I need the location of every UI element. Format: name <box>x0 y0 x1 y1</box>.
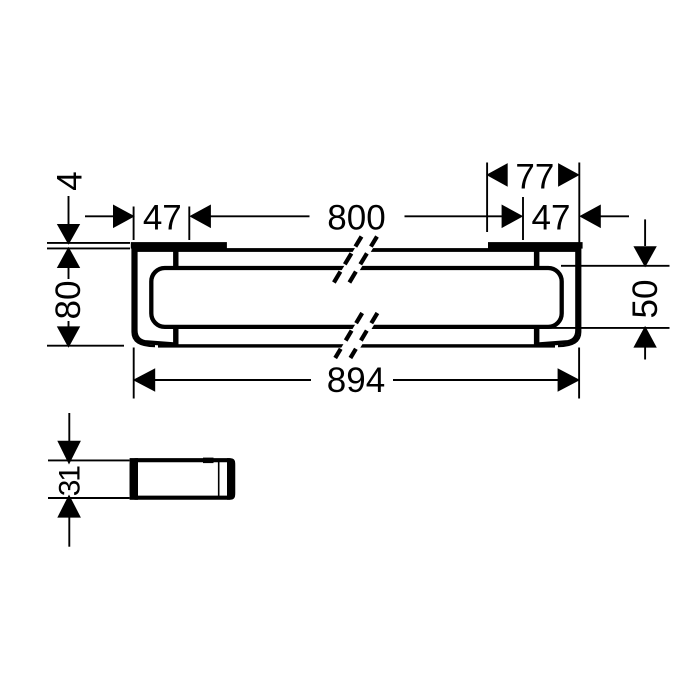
dim 31 extension line bottom <box>48 497 130 499</box>
dim 894 dim line left segment <box>134 379 311 381</box>
dim 77 arrow right <box>558 163 580 187</box>
dim 47 left arrow right <box>113 205 135 229</box>
side profile right end cap <box>227 458 235 500</box>
dim 80 arrow down <box>57 326 80 347</box>
dim 50 leader line top <box>644 219 646 246</box>
right support arm upper segment <box>534 249 540 267</box>
wall plate right (top thick bar) <box>488 242 583 249</box>
svg-text:47: 47 <box>532 198 571 237</box>
dim 31 arrow down <box>57 441 81 465</box>
bar bottom edge line <box>158 344 555 347</box>
dim 77 arrow left <box>486 163 508 187</box>
dim 31 arrow up <box>57 495 81 518</box>
side profile left end cap <box>130 458 138 500</box>
dim 50 arrow up <box>633 326 656 348</box>
dim 50 leader line bottom <box>644 347 646 360</box>
dim 894 arrow right <box>558 368 580 392</box>
right support arm lower segment <box>534 329 540 346</box>
dim 77 extension line left <box>486 163 488 233</box>
dim 894 dim line right segment <box>393 379 579 381</box>
dim 800 arrow right <box>502 205 524 229</box>
svg-text:80: 80 <box>49 281 88 320</box>
dim 894 extension line right <box>578 348 580 399</box>
svg-text:800: 800 <box>327 198 385 237</box>
dim 800 arrow left <box>189 205 211 229</box>
rail opening (inner rounded rectangle) <box>151 268 561 327</box>
dim 47 left extension line b <box>188 207 190 241</box>
dim 31 extension line top <box>48 459 130 461</box>
dim 50 extension line top <box>561 265 670 267</box>
break slash lower 1 <box>335 313 362 358</box>
svg-text:77: 77 <box>515 157 554 196</box>
svg-text:50: 50 <box>626 280 665 319</box>
dim 800 dim line right segment <box>405 215 504 217</box>
dim 894 extension line left <box>133 348 135 399</box>
side profile seam line <box>218 460 220 498</box>
svg-text:47: 47 <box>143 198 182 237</box>
break slash upper 1 <box>334 237 362 283</box>
dim 31 leader line top <box>68 413 70 441</box>
left foot inner thick contour <box>136 243 178 345</box>
dim 47 left tail line <box>85 215 114 217</box>
dim 80 extension line bottom <box>47 345 124 347</box>
dim 800 extension line right <box>522 197 524 240</box>
break slash lower 2 <box>350 313 377 358</box>
right foot inner thick contour <box>536 243 577 345</box>
svg-text:31: 31 <box>53 466 86 496</box>
left support arm lower segment <box>173 329 178 346</box>
dim 4 extension line top <box>47 242 130 244</box>
svg-text:894: 894 <box>327 361 385 400</box>
dim 800 dim line left segment <box>210 215 310 217</box>
dim 50 arrow down <box>633 246 656 267</box>
dim 894 arrow left <box>133 368 155 392</box>
dim 4 arrow down <box>57 224 80 245</box>
dim 50 extension line bottom <box>548 327 670 329</box>
dim 47 left extension line a <box>133 207 135 241</box>
dim 80 dim line lower segment <box>68 321 70 327</box>
dim 47 right arrow left <box>579 205 601 229</box>
dim 80 dim line upper segment <box>68 268 70 279</box>
break slash upper 2 <box>349 237 377 283</box>
break gap white band upper <box>330 240 378 290</box>
left foot outer contour <box>133 243 155 346</box>
dim 47 right tail line <box>600 215 629 217</box>
right foot outer contour <box>558 243 580 346</box>
svg-text:4: 4 <box>51 171 90 190</box>
dim 47 right extension line <box>578 163 580 243</box>
wall plate left (top thick bar) <box>131 242 227 249</box>
dim 4 leader line <box>68 196 70 224</box>
bar top edge line <box>133 248 580 252</box>
left support arm upper segment <box>173 249 178 267</box>
dim 80 arrow up (shared with dim 4) <box>57 247 80 268</box>
break gap white band lower <box>334 310 383 360</box>
dim 4 extension line bottom <box>47 247 130 249</box>
side profile outer outline <box>132 460 233 498</box>
dim 31 leader line bottom <box>68 517 70 547</box>
side profile top edge detail nub <box>203 458 214 464</box>
